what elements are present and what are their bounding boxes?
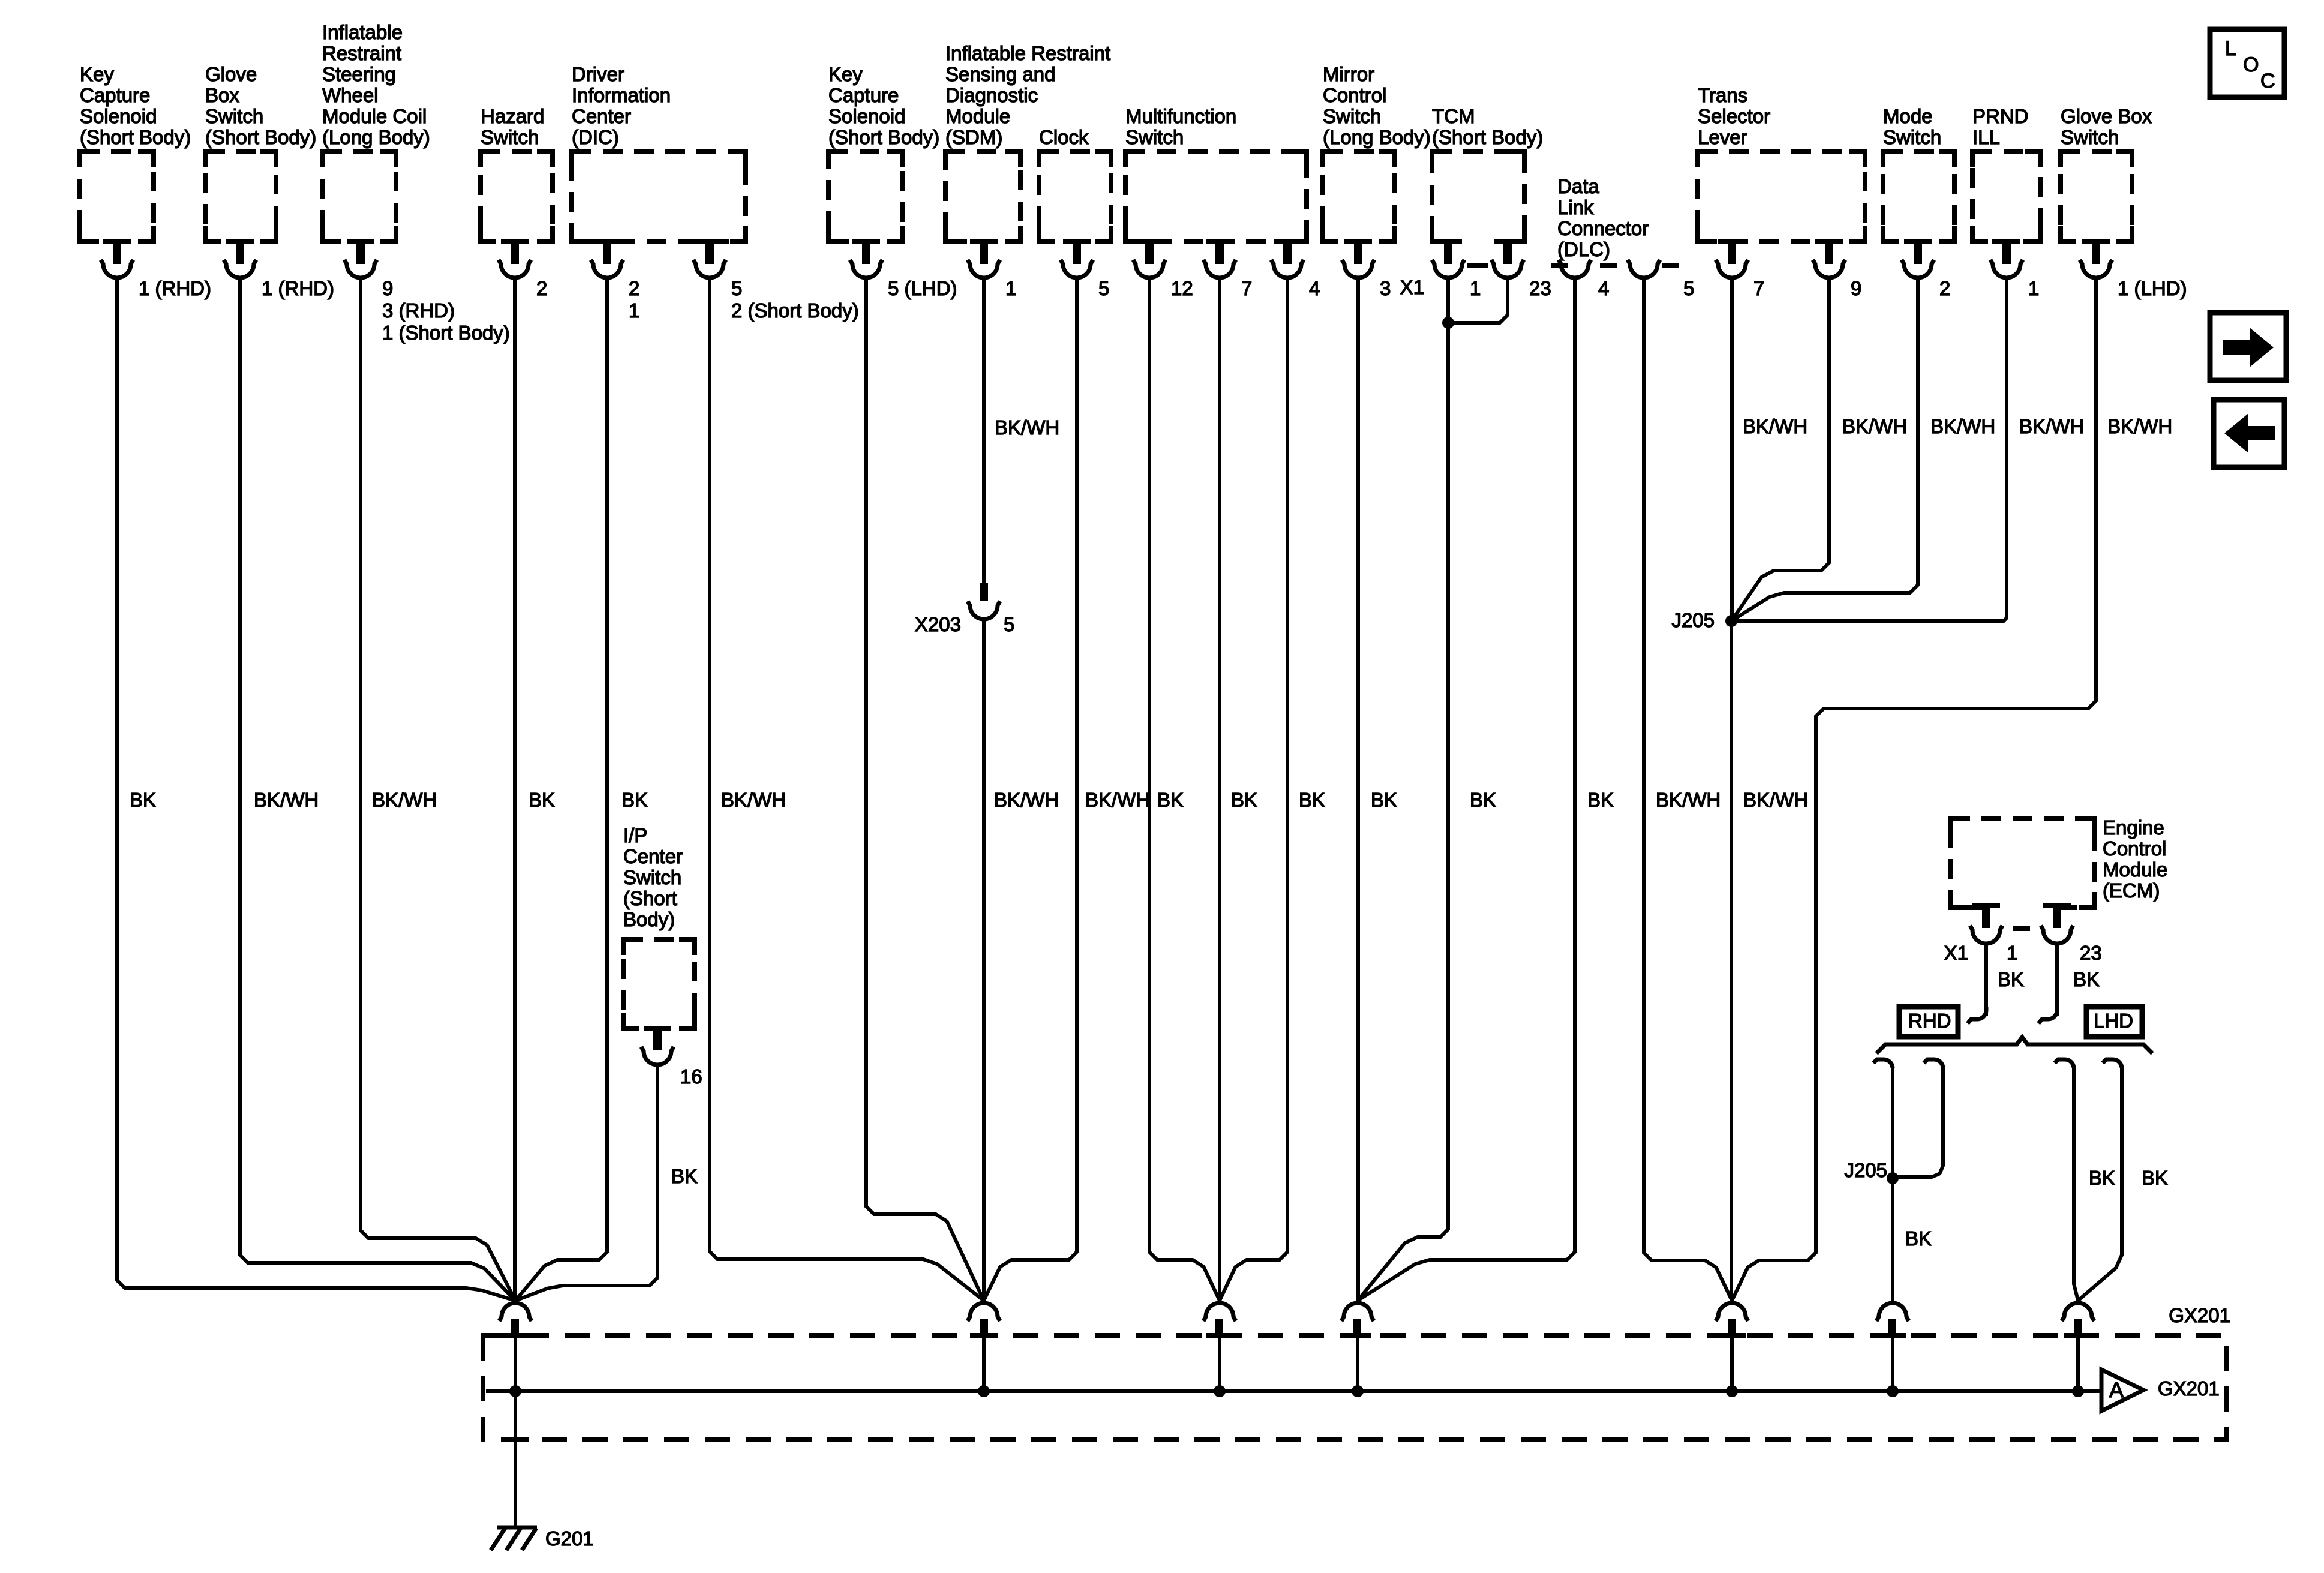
svg-text:RHD: RHD bbox=[1908, 1010, 1951, 1032]
I/P Center Switch connector pin 16 bbox=[641, 1026, 702, 1088]
ground collector connector (left group) bbox=[499, 1303, 532, 1338]
svg-text:5: 5 bbox=[1683, 277, 1694, 299]
svg-text:BK: BK bbox=[621, 789, 648, 811]
right arrow navigation box bbox=[2210, 313, 2286, 380]
svg-text:1: 1 bbox=[1470, 277, 1481, 299]
svg-text:BK: BK bbox=[2142, 1167, 2168, 1189]
svg-text:BK/WH: BK/WH bbox=[1930, 415, 1995, 437]
wire BK from LHD connector a to ground collector bbox=[2074, 1068, 2078, 1301]
svg-text:Switch: Switch bbox=[1323, 105, 1381, 127]
component Multifunction Switch: connector pin 12 bbox=[1133, 239, 1193, 299]
svg-text:BK/WH: BK/WH bbox=[1743, 789, 1808, 811]
svg-text:Multifunction: Multifunction bbox=[1125, 105, 1236, 127]
svg-text:1 (RHD): 1 (RHD) bbox=[139, 277, 211, 299]
wire from TCM pin 1 down to junction bbox=[1358, 277, 1448, 1301]
svg-text:2: 2 bbox=[629, 277, 639, 299]
wire BK from ECM pin 1 to in-line connector (RHD) bbox=[1984, 944, 1988, 1016]
wire from collector to bus (left group) bbox=[514, 1336, 517, 1391]
svg-text:BK/WH: BK/WH bbox=[1085, 789, 1150, 811]
svg-text:9: 9 bbox=[1851, 277, 1861, 299]
bus junction (left group) bbox=[509, 1385, 521, 1397]
svg-text:TCM: TCM bbox=[1432, 105, 1475, 127]
svg-text:BK: BK bbox=[1998, 968, 2024, 990]
LHD variant label box bbox=[2086, 1007, 2142, 1037]
svg-text:Driver: Driver bbox=[572, 63, 624, 85]
bus junction (mirror/TCM/DLC group) bbox=[1352, 1385, 1364, 1397]
wire BK from I/P Center Switch pin 16 to ground collector bbox=[515, 1064, 657, 1301]
svg-text:Module Coil: Module Coil bbox=[322, 105, 427, 127]
wire BK/WH from SDM pin 1 to in-line connector X203 bbox=[982, 277, 986, 584]
svg-text:Connector: Connector bbox=[1557, 217, 1649, 239]
harness variant brace bbox=[1876, 1037, 2152, 1053]
component Key Capture Solenoid (Short Body) #1 bbox=[80, 63, 191, 242]
wire from RHD connector b to splice J205 bbox=[1893, 1068, 1943, 1177]
svg-text:1 (Short Body): 1 (Short Body) bbox=[382, 322, 510, 344]
svg-text:BK: BK bbox=[1470, 789, 1496, 811]
svg-text:Inflatable: Inflatable bbox=[322, 21, 403, 43]
component TCM (Short Body): connector pin 1 bbox=[1432, 239, 1481, 299]
component I/P Center Switch (Short Body) bbox=[623, 824, 695, 1028]
wire BK/WH from Glove Box Switch pin 1 to ground collector bbox=[240, 277, 515, 1301]
svg-text:BK: BK bbox=[1157, 789, 1184, 811]
svg-text:Restraint: Restraint bbox=[322, 42, 401, 64]
svg-text:BK/WH: BK/WH bbox=[254, 789, 319, 811]
component Glove Box Switch (top right) bbox=[2061, 105, 2152, 242]
wire BK from DLC pin 4 to collector bbox=[1358, 277, 1575, 1301]
svg-text:X1: X1 bbox=[1400, 276, 1424, 298]
svg-text:16: 16 bbox=[680, 1065, 702, 1088]
RHD variant label box bbox=[1899, 1007, 1958, 1037]
svg-text:4: 4 bbox=[1309, 277, 1320, 299]
component Mode Switch: connector pin 2 bbox=[1902, 239, 1950, 299]
wire BK/WH from DIC pin 5 to SDM collector bbox=[710, 277, 984, 1301]
svg-text:BK/WH: BK/WH bbox=[721, 789, 786, 811]
svg-text:BK: BK bbox=[1905, 1227, 1932, 1250]
wire from collector to bus (trans selector group) bbox=[1730, 1336, 1734, 1391]
wire BK from Multifunction Switch pin 12 to collector bbox=[1149, 277, 1220, 1301]
svg-text:BK: BK bbox=[1371, 789, 1397, 811]
svg-text:(Short Body): (Short Body) bbox=[205, 126, 316, 148]
svg-text:1: 1 bbox=[1005, 277, 1016, 299]
svg-text:BK: BK bbox=[130, 789, 156, 811]
wire BK/WH from Trans Selector Lever pin 7 to splice J205 bbox=[1730, 277, 1734, 621]
svg-text:(Long Body): (Long Body) bbox=[322, 126, 430, 148]
svg-text:Center: Center bbox=[623, 845, 683, 867]
in-line connector half (LHD wire b) bbox=[2103, 1059, 2122, 1068]
wire BK/WH from DLC pin 5 to collector bbox=[1644, 277, 1732, 1301]
svg-text:GX201: GX201 bbox=[2158, 1377, 2220, 1400]
svg-text:Module: Module bbox=[2103, 858, 2167, 881]
svg-text:5 (LHD): 5 (LHD) bbox=[888, 277, 957, 299]
in-line connector half (LHD wire a) bbox=[2055, 1059, 2074, 1068]
svg-text:4: 4 bbox=[1598, 277, 1609, 299]
svg-text:Sensing and: Sensing and bbox=[945, 63, 1055, 85]
svg-text:(DLC): (DLC) bbox=[1557, 238, 1610, 260]
splice J205 (lower) bbox=[1887, 1172, 1899, 1184]
svg-text:(DIC): (DIC) bbox=[572, 126, 619, 148]
svg-text:5: 5 bbox=[1098, 277, 1109, 299]
wire BK/WH from Glove Box Switch pin 1 (LHD) to collector bbox=[1732, 277, 2096, 1301]
component Trans Selector Lever bbox=[1698, 84, 1865, 242]
svg-text:23: 23 bbox=[1529, 277, 1551, 299]
svg-text:L: L bbox=[2225, 37, 2236, 60]
component Key Capture Solenoid (Short Body) #1: connector pin 1 (RHD) bbox=[101, 239, 211, 299]
wire BK from ECM pin 23 to in-line connector (LHD) bbox=[2055, 944, 2059, 1016]
component PRND ILL: connector pin 1 bbox=[1990, 239, 2039, 299]
svg-text:Wheel: Wheel bbox=[322, 84, 379, 106]
svg-text:Switch: Switch bbox=[1125, 126, 1184, 148]
svg-text:7: 7 bbox=[1753, 277, 1764, 299]
svg-text:Switch: Switch bbox=[2061, 126, 2119, 148]
svg-text:Capture: Capture bbox=[828, 84, 899, 106]
component Multifunction Switch bbox=[1125, 105, 1307, 242]
svg-text:Center: Center bbox=[572, 105, 631, 127]
svg-text:BK/WH: BK/WH bbox=[994, 789, 1059, 811]
svg-text:(Short Body): (Short Body) bbox=[1432, 126, 1543, 148]
svg-text:Data: Data bbox=[1557, 175, 1599, 197]
component Key Capture Solenoid (Short Body) #2: connector pin 5 (LHD) bbox=[850, 239, 957, 299]
TCM connector face dashed line bbox=[1467, 263, 1488, 268]
svg-text:1: 1 bbox=[2028, 277, 2039, 299]
DLC connector pin 4 bbox=[1559, 260, 1609, 299]
ground distribution cell GX201 (dashed) bbox=[483, 1335, 2227, 1440]
svg-text:Steering: Steering bbox=[322, 63, 396, 85]
svg-text:1 (RHD): 1 (RHD) bbox=[262, 277, 334, 299]
svg-text:ILL: ILL bbox=[1972, 126, 2000, 148]
ground collector connector (multifunction group) bbox=[1203, 1303, 1236, 1338]
component Hazard Switch: connector pin 2 bbox=[499, 239, 547, 299]
svg-text:(ECM): (ECM) bbox=[2103, 879, 2160, 902]
svg-text:Clock: Clock bbox=[1039, 126, 1089, 148]
component Clock: connector pin 5 bbox=[1061, 239, 1109, 299]
svg-text:Mirror: Mirror bbox=[1323, 63, 1374, 85]
svg-text:Link: Link bbox=[1557, 196, 1594, 218]
svg-text:Glove Box: Glove Box bbox=[2061, 105, 2152, 127]
DLC connector face dashed line bbox=[1551, 263, 1568, 268]
svg-text:BK: BK bbox=[529, 789, 555, 811]
svg-text:Control: Control bbox=[2103, 837, 2166, 860]
wire BK/WH from Key Capture Solenoid #2 pin 5 to SDM collector bbox=[866, 277, 984, 1301]
svg-text:(Short Body): (Short Body) bbox=[828, 126, 939, 148]
svg-text:Control: Control bbox=[1323, 84, 1386, 106]
wire BK/WH from Mode Switch pin 2 to splice J205 bbox=[1731, 277, 1918, 621]
svg-text:BK/WH: BK/WH bbox=[372, 789, 437, 811]
svg-text:2: 2 bbox=[536, 277, 547, 299]
svg-text:C: C bbox=[2260, 70, 2275, 92]
component Data Link Connector (DLC) bbox=[1557, 175, 1649, 260]
svg-text:Trans: Trans bbox=[1698, 84, 1747, 106]
component Mirror Control Switch (Long Body): connector pin 3 bbox=[1342, 239, 1391, 299]
bus junction (multifunction group) bbox=[1214, 1385, 1226, 1397]
component Trans Selector Lever: connector pin 7 bbox=[1716, 239, 1764, 299]
svg-text:Solenoid: Solenoid bbox=[828, 105, 905, 127]
svg-text:23: 23 bbox=[2080, 942, 2102, 964]
svg-text:BK/WH: BK/WH bbox=[2019, 415, 2084, 437]
ECM connector X1 pin 1 bbox=[1970, 903, 2002, 944]
junction of TCM pins 1 and 23 bbox=[1442, 317, 1454, 329]
splice J205 (upper) bbox=[1725, 615, 1737, 627]
svg-text:BK: BK bbox=[2073, 968, 2100, 990]
svg-text:5: 5 bbox=[1004, 613, 1014, 635]
svg-text:9: 9 bbox=[382, 277, 393, 299]
wire BK from Hazard Switch pin 2 to ground collector bbox=[513, 277, 517, 1301]
component Clock bbox=[1039, 126, 1111, 242]
component Driver Information Center (DIC) bbox=[572, 63, 746, 242]
svg-text:2 (Short Body): 2 (Short Body) bbox=[731, 299, 859, 322]
component TCM (Short Body) bbox=[1432, 105, 1543, 246]
wire BK/WH from Trans Selector Lever pin 9 to splice J205 bbox=[1731, 277, 1829, 621]
wire from bus to ground G201 bbox=[514, 1391, 517, 1527]
component Inflatable Restraint Steering Wheel Module Coil (Long Body) bbox=[322, 21, 430, 242]
in-line connector half (RHD wire b) bbox=[1924, 1059, 1943, 1068]
svg-text:Box: Box bbox=[205, 84, 239, 106]
component Key Capture Solenoid (Short Body) #2 bbox=[828, 63, 939, 242]
wire BK from splice J205 to ground collector bbox=[1891, 1178, 1894, 1301]
component Engine Control Module (ECM) bbox=[1950, 816, 2167, 912]
svg-text:J205: J205 bbox=[1671, 609, 1715, 631]
svg-text:PRND: PRND bbox=[1972, 105, 2029, 127]
svg-text:12: 12 bbox=[1171, 277, 1193, 299]
wire from collector to bus (LHD group) bbox=[2076, 1336, 2080, 1391]
component Inflatable Restraint Steering Wheel Module Coil (Long Body): connector pin 9 bbox=[344, 239, 510, 344]
svg-text:BK/WH: BK/WH bbox=[1656, 789, 1721, 811]
component Glove Box Switch (Short Body) bbox=[205, 63, 316, 242]
svg-text:1 (LHD): 1 (LHD) bbox=[2118, 277, 2187, 299]
in-line connector half (RHD wire a) bbox=[1873, 1059, 1893, 1068]
wire BK from DIC pin 2 to ground collector bbox=[515, 277, 607, 1301]
DLC connector pin 5 bbox=[1628, 260, 1694, 299]
ground collector connector (LHD group) bbox=[2062, 1303, 2094, 1338]
svg-text:BK: BK bbox=[1231, 789, 1257, 811]
svg-text:3 (RHD): 3 (RHD) bbox=[382, 299, 455, 322]
LOC legend box bbox=[2210, 29, 2284, 97]
ground collector connector (SDM group) bbox=[968, 1303, 1000, 1338]
svg-text:Key: Key bbox=[828, 63, 863, 85]
component Driver Information Center (DIC): connector pin 2 bbox=[591, 239, 639, 322]
ground bus wire bbox=[486, 1389, 2101, 1393]
in-line connector half (ECM pin 23 side) bbox=[2038, 1007, 2057, 1023]
wire from collector to bus (multifunction group) bbox=[1218, 1336, 1221, 1391]
dash at G201 wire crossing of GX201 border bbox=[502, 1437, 529, 1442]
svg-text:(Short Body): (Short Body) bbox=[80, 126, 191, 148]
svg-text:Diagnostic: Diagnostic bbox=[945, 84, 1038, 106]
svg-text:BK/WH: BK/WH bbox=[1842, 415, 1907, 437]
wire BK/WH from PRND ILL pin 1 to splice J205 bbox=[1731, 277, 2007, 621]
svg-text:BK: BK bbox=[2089, 1167, 2115, 1189]
svg-text:LHD: LHD bbox=[2094, 1010, 2133, 1032]
wire BK/WH from Steering Wheel Module Coil to ground collector bbox=[361, 277, 515, 1301]
svg-text:Switch: Switch bbox=[1883, 126, 1941, 148]
ECM connector X1 pin 23 bbox=[2041, 903, 2073, 944]
svg-text:I/P: I/P bbox=[623, 824, 647, 846]
svg-text:Module: Module bbox=[945, 105, 1010, 127]
component Glove Box Switch (Short Body): connector pin 1 (RHD) bbox=[224, 239, 334, 299]
svg-text:(SDM): (SDM) bbox=[945, 126, 1002, 148]
svg-text:Capture: Capture bbox=[80, 84, 150, 106]
svg-text:1: 1 bbox=[2007, 942, 2017, 964]
svg-text:Hazard: Hazard bbox=[481, 105, 544, 127]
svg-text:Mode: Mode bbox=[1883, 105, 1933, 127]
left arrow navigation box bbox=[2214, 400, 2284, 467]
svg-text:BK: BK bbox=[1587, 789, 1614, 811]
svg-text:Body): Body) bbox=[623, 908, 675, 930]
ECM connector face dashed line bbox=[2013, 926, 2030, 931]
wire BK from Mirror Control Switch pin 3 to collector bbox=[1356, 277, 1360, 1301]
wire BK from Multifunction Switch pin 4 to collector bbox=[1220, 277, 1287, 1301]
svg-text:Switch: Switch bbox=[205, 105, 263, 127]
bus junction (RHD group) bbox=[1887, 1385, 1899, 1397]
bus junction (LHD group) bbox=[2072, 1385, 2084, 1397]
svg-text:3: 3 bbox=[1380, 277, 1391, 299]
component TCM (Short Body): connector pin 23 bbox=[1491, 239, 1551, 299]
component Hazard Switch bbox=[481, 105, 553, 242]
svg-text:BK: BK bbox=[671, 1165, 698, 1187]
component Inflatable Restraint Sensing and Diagnostic Module (SDM): connector pin 1 bbox=[968, 239, 1016, 299]
svg-text:Selector: Selector bbox=[1698, 105, 1770, 127]
component Driver Information Center (DIC): connector pin 5 bbox=[693, 239, 859, 322]
ground collector connector (trans selector group) bbox=[1716, 1303, 1748, 1338]
bus junction (SDM group) bbox=[978, 1385, 990, 1397]
wire BK from LHD connector b to ground collector bbox=[2078, 1068, 2122, 1301]
component Glove Box Switch (top right): connector pin 1 (LHD) bbox=[2080, 239, 2187, 299]
ground symbol G201 bbox=[491, 1527, 537, 1550]
ground collector connector (mirror/TCM/DLC group) bbox=[1341, 1303, 1374, 1338]
svg-text:Switch: Switch bbox=[623, 866, 681, 888]
wire BK from Key Capture Solenoid #1 pin 1 to ground collector bbox=[117, 277, 515, 1301]
svg-text:BK/WH: BK/WH bbox=[2107, 415, 2172, 437]
in-line connector X203 pin 5 bbox=[915, 583, 1014, 635]
component Trans Selector Lever: connector pin 9 bbox=[1813, 239, 1861, 299]
svg-text:1: 1 bbox=[629, 299, 639, 322]
svg-text:Lever: Lever bbox=[1698, 126, 1747, 148]
wire from collector to bus (RHD group) bbox=[1891, 1336, 1894, 1391]
wire BK/WH from splice J205 down to collector bbox=[1730, 621, 1733, 1301]
svg-text:O: O bbox=[2243, 53, 2259, 76]
svg-text:BK/WH: BK/WH bbox=[1743, 415, 1807, 437]
svg-text:BK/WH: BK/WH bbox=[995, 416, 1059, 439]
svg-text:Key: Key bbox=[80, 63, 114, 85]
svg-text:Glove: Glove bbox=[205, 63, 257, 85]
svg-text:Inflatable Restraint: Inflatable Restraint bbox=[945, 42, 1110, 64]
svg-text:(Long Body): (Long Body) bbox=[1323, 126, 1431, 148]
wire BK from Multifunction Switch pin 7 to collector bbox=[1218, 277, 1221, 1301]
svg-text:(Short: (Short bbox=[623, 887, 677, 909]
svg-text:GX201: GX201 bbox=[2169, 1304, 2230, 1326]
wire BK/WH from X203 to SDM collector bbox=[982, 619, 986, 1301]
svg-text:2: 2 bbox=[1939, 277, 1950, 299]
component PRND ILL bbox=[1972, 105, 2041, 242]
component Mode Switch bbox=[1883, 105, 1954, 242]
triangle A reference GX201 bbox=[2101, 1370, 2220, 1411]
svg-text:G201: G201 bbox=[545, 1527, 594, 1550]
wire from collector to bus (SDM group) bbox=[982, 1336, 986, 1391]
component Mirror Control Switch (Long Body) bbox=[1323, 63, 1431, 242]
component Inflatable Restraint Sensing and Diagnostic Module (SDM) bbox=[945, 42, 1110, 242]
component Multifunction Switch: connector pin 4 bbox=[1271, 239, 1320, 299]
in-line connector half (ECM pin 1 side) bbox=[1968, 1007, 1986, 1023]
wire from TCM pin 23 to junction bbox=[1448, 277, 1508, 323]
svg-text:A: A bbox=[2109, 1377, 2124, 1402]
svg-text:J205: J205 bbox=[1844, 1159, 1887, 1181]
svg-text:5: 5 bbox=[731, 277, 742, 299]
svg-text:X1: X1 bbox=[1944, 942, 1968, 964]
svg-text:Solenoid: Solenoid bbox=[80, 105, 157, 127]
wire from collector to bus (mirror/TCM/DLC group) bbox=[1356, 1336, 1359, 1391]
wire BK/WH from Clock pin 5 to SDM collector bbox=[984, 277, 1077, 1301]
wire BK from RHD connector to splice J205 bbox=[1891, 1068, 1894, 1178]
svg-text:X203: X203 bbox=[915, 613, 961, 635]
svg-text:Information: Information bbox=[572, 84, 671, 106]
svg-text:Engine: Engine bbox=[2103, 816, 2164, 839]
component Multifunction Switch: connector pin 7 bbox=[1203, 239, 1252, 299]
ground collector connector (RHD group) bbox=[1876, 1303, 1909, 1338]
bus junction (trans selector group) bbox=[1726, 1385, 1738, 1397]
svg-text:Switch: Switch bbox=[481, 126, 539, 148]
svg-text:BK: BK bbox=[1299, 789, 1325, 811]
svg-text:7: 7 bbox=[1241, 277, 1252, 299]
